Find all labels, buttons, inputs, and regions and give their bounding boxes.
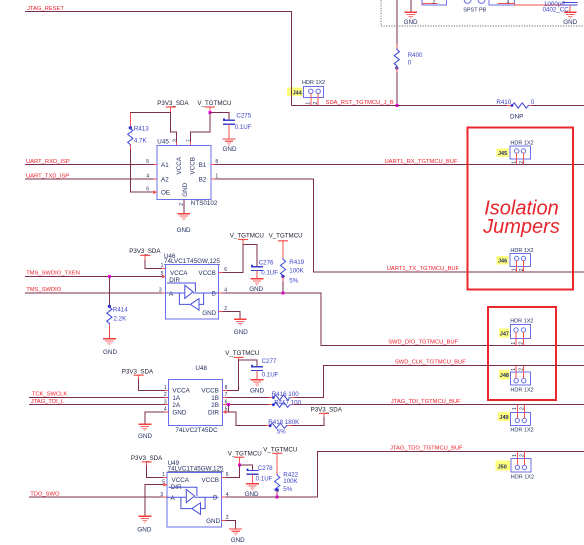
junction xyxy=(108,275,111,278)
svg-text:5%: 5% xyxy=(283,486,292,493)
resistor R400 xyxy=(396,44,398,49)
svg-text:V_TGTMCU: V_TGTMCU xyxy=(225,350,259,357)
wire SWD_CLK_TGTMCU_BUF xyxy=(295,366,584,398)
svg-text:JTAG_TDI_TGTMCU_BUF: JTAG_TDI_TGTMCU_BUF xyxy=(391,399,461,405)
svg-text:GND: GND xyxy=(172,409,186,416)
resistor R410 xyxy=(507,105,511,107)
switch contacts xyxy=(464,0,471,3)
svg-text:V_TGTMCU: V_TGTMCU xyxy=(197,100,231,107)
wire JTAG_TDI_L xyxy=(29,404,165,406)
wire pushbutton pin2 to R400 xyxy=(396,0,398,44)
connector J47 xyxy=(499,328,509,337)
svg-text:C276: C276 xyxy=(259,259,274,266)
connector J44 xyxy=(287,88,303,96)
svg-text:B2: B2 xyxy=(199,177,207,184)
svg-text:5%: 5% xyxy=(289,278,298,285)
svg-text:2: 2 xyxy=(164,392,167,398)
pin 2 stub xyxy=(219,310,223,312)
pin stubs xyxy=(223,389,227,391)
resistor R419 xyxy=(282,241,284,259)
svg-text:TMS_SWDIO_TXEN: TMS_SWDIO_TXEN xyxy=(26,271,80,277)
svg-text:A: A xyxy=(169,291,174,298)
svg-text:4.7K: 4.7K xyxy=(134,137,148,144)
svg-text:R416 100: R416 100 xyxy=(272,391,299,398)
svg-text:U48: U48 xyxy=(195,365,207,372)
svg-text:0.1UF: 0.1UF xyxy=(261,270,278,277)
svg-text:J44: J44 xyxy=(293,90,303,96)
svg-text:B: B xyxy=(213,495,217,502)
wire TMS_SWDIO xyxy=(25,292,162,294)
svg-text:B: B xyxy=(212,290,216,297)
wire TCK_SWCLK xyxy=(29,397,165,399)
svg-text:J47: J47 xyxy=(500,331,509,337)
connector J48 xyxy=(499,370,509,379)
svg-text:2: 2 xyxy=(313,102,319,105)
ground xyxy=(564,12,577,19)
svg-text:GND: GND xyxy=(103,349,117,356)
buffer triangles U49 xyxy=(166,487,219,514)
wire UART_RXD_ISP xyxy=(25,164,153,166)
DIR arrow xyxy=(162,275,166,279)
svg-text:UART_TXD_ISP: UART_TXD_ISP xyxy=(26,173,69,179)
switch S pin 2 box xyxy=(422,0,447,5)
svg-text:1: 1 xyxy=(161,263,164,269)
svg-text:100K: 100K xyxy=(289,268,304,275)
svg-text:1: 1 xyxy=(164,385,167,391)
svg-text:C278: C278 xyxy=(258,465,273,472)
svg-text:SPST PB: SPST PB xyxy=(463,8,486,14)
svg-text:R414: R414 xyxy=(113,307,128,314)
svg-text:VCCA: VCCA xyxy=(170,270,188,277)
ground xyxy=(177,214,190,221)
svg-text:2: 2 xyxy=(519,161,525,164)
ground xyxy=(251,380,264,387)
svg-text:0: 0 xyxy=(531,99,535,106)
svg-text:R417 100: R417 100 xyxy=(274,400,301,407)
svg-text:GND: GND xyxy=(182,182,189,196)
svg-text:DNP: DNP xyxy=(510,114,523,121)
wire DIR to gnd xyxy=(145,485,163,516)
svg-text:HDR 1X2: HDR 1X2 xyxy=(302,80,325,86)
svg-text:JTAG_RESET: JTAG_RESET xyxy=(27,6,64,12)
ground xyxy=(223,139,236,146)
svg-text:P3V3_SDA: P3V3_SDA xyxy=(122,368,154,375)
svg-text:GND: GND xyxy=(138,433,152,440)
svg-text:A1: A1 xyxy=(161,162,169,169)
svg-text:2B: 2B xyxy=(211,402,219,409)
connector J49 xyxy=(498,412,510,421)
svg-text:2: 2 xyxy=(520,454,526,457)
wire gnd drop xyxy=(410,0,412,12)
ground xyxy=(139,516,152,523)
svg-text:GND: GND xyxy=(223,146,237,153)
svg-text:JTAG_TDI_L: JTAG_TDI_L xyxy=(31,399,65,405)
svg-text:1: 1 xyxy=(512,161,518,164)
red isolation box 1 xyxy=(468,128,574,290)
svg-text:JTAG_TDO_TGTMCU_BUF: JTAG_TDO_TGTMCU_BUF xyxy=(390,446,463,452)
pin stubs left xyxy=(153,164,157,166)
svg-text:VCCB: VCCB xyxy=(202,477,220,484)
svg-text:HDR 1X2: HDR 1X2 xyxy=(510,387,533,393)
svg-text:1: 1 xyxy=(306,102,312,105)
wire SDA_RST_TGTMCU_J_B xyxy=(291,105,507,107)
svg-text:TCK_SWCLK: TCK_SWCLK xyxy=(32,392,68,398)
svg-text:P3V3_SDA: P3V3_SDA xyxy=(311,407,343,414)
svg-text:P3V3_SDA: P3V3_SDA xyxy=(131,455,163,462)
svg-text:OE: OE xyxy=(161,190,170,197)
wire JTAG_RESET xyxy=(25,12,291,106)
svg-text:V_TGTMCU: V_TGTMCU xyxy=(230,232,264,239)
wire TDO_SWO xyxy=(29,496,163,498)
svg-text:100K: 100K xyxy=(283,478,298,485)
svg-text:1A: 1A xyxy=(172,395,181,402)
wire R413 to OE xyxy=(130,150,152,193)
svg-text:VCCA: VCCA xyxy=(172,388,190,395)
pin stubs right xyxy=(211,164,215,166)
svg-text:A: A xyxy=(171,495,176,502)
junction xyxy=(238,464,241,467)
svg-text:VCCA: VCCA xyxy=(172,477,190,484)
top dashed enclosure xyxy=(381,0,584,26)
svg-text:1: 1 xyxy=(511,368,517,371)
capacitor C275 xyxy=(223,118,235,124)
ground xyxy=(139,424,152,431)
svg-text:R419: R419 xyxy=(289,259,304,266)
svg-text:2A: 2A xyxy=(172,402,181,409)
resistor R422 xyxy=(276,453,278,474)
svg-text:C275: C275 xyxy=(236,113,251,120)
svg-text:P3V3_SDA: P3V3_SDA xyxy=(129,248,161,255)
svg-text:GND: GND xyxy=(250,387,264,394)
svg-text:R410: R410 xyxy=(496,99,511,106)
svg-text:GND: GND xyxy=(231,537,245,544)
wire to VCCA and R413 xyxy=(130,112,170,113)
svg-text:SWD_CLK_TGTMCU_BUF: SWD_CLK_TGTMCU_BUF xyxy=(395,360,466,366)
wire pin4 gnd xyxy=(145,412,169,424)
svg-text:J49: J49 xyxy=(499,415,508,421)
svg-text:1: 1 xyxy=(162,472,165,478)
capacitor C276 xyxy=(251,265,263,271)
svg-text:5: 5 xyxy=(146,159,149,165)
svg-text:2: 2 xyxy=(520,407,526,410)
svg-text:DIR: DIR xyxy=(208,409,219,416)
svg-text:UART_RXD_ISP: UART_RXD_ISP xyxy=(26,159,70,165)
svg-text:B1: B1 xyxy=(199,162,207,169)
svg-text:U45: U45 xyxy=(157,139,169,146)
svg-text:TDO_SWO: TDO_SWO xyxy=(30,491,60,497)
svg-text:V_TGTMCU: V_TGTMCU xyxy=(263,447,297,454)
connector J46 xyxy=(496,256,508,265)
svg-text:GND: GND xyxy=(563,19,577,26)
resistor R413 xyxy=(129,113,131,128)
pin 6 stub xyxy=(219,271,223,273)
svg-text:SDA_RST_TGTMCU_J_B: SDA_RST_TGTMCU_J_B xyxy=(326,100,394,106)
svg-text:UART1_RX_TGTMCU_BUF: UART1_RX_TGTMCU_BUF xyxy=(385,159,458,165)
svg-text:R413: R413 xyxy=(134,126,149,133)
svg-text:J45: J45 xyxy=(498,151,507,157)
svg-text:NTS0102: NTS0102 xyxy=(191,200,218,207)
svg-text:4: 4 xyxy=(146,174,149,180)
capacitor C278 xyxy=(247,469,259,475)
svg-text:HDR 1X2: HDR 1X2 xyxy=(510,318,533,324)
wire to C278 xyxy=(239,465,252,470)
svg-text:VCCB: VCCB xyxy=(201,388,219,395)
svg-text:TMS_SWDIO: TMS_SWDIO xyxy=(26,287,62,293)
svg-text:0.1UF: 0.1UF xyxy=(262,371,279,378)
svg-text:R418 180K: R418 180K xyxy=(268,419,300,426)
svg-text:C277: C277 xyxy=(262,358,277,365)
resistor R416 xyxy=(227,397,270,399)
ground xyxy=(229,529,242,536)
buffer triangles U46 xyxy=(166,283,219,310)
capacitor C277 xyxy=(251,365,263,371)
svg-text:1: 1 xyxy=(511,342,517,345)
svg-text:GND: GND xyxy=(202,310,216,317)
red isolation box 2 xyxy=(488,307,556,400)
svg-text:J50: J50 xyxy=(498,464,507,470)
svg-text:0.1UF: 0.1UF xyxy=(256,476,273,483)
capacitor 1000pF xyxy=(563,1,578,3)
ground xyxy=(246,484,259,491)
svg-text:6: 6 xyxy=(146,187,149,193)
svg-text:2: 2 xyxy=(519,268,525,271)
DIR arrow xyxy=(163,483,167,487)
svg-text:GND: GND xyxy=(206,518,220,525)
connector J50 xyxy=(495,461,510,471)
svg-text:74LVC1T45GW,125: 74LVC1T45GW,125 xyxy=(168,465,224,472)
svg-text:J48: J48 xyxy=(500,373,509,379)
junction DIR to 2B xyxy=(227,403,230,406)
svg-text:2.2K: 2.2K xyxy=(114,316,128,323)
svg-text:R400: R400 xyxy=(408,52,423,59)
svg-text:GND: GND xyxy=(137,526,151,533)
wire VCCB net xyxy=(223,245,244,273)
svg-text:GND: GND xyxy=(249,286,263,293)
wire B1 / UART1_RX_TGTMCU_BUF xyxy=(215,164,584,166)
ground xyxy=(404,12,417,19)
junction xyxy=(208,111,211,114)
svg-text:J46: J46 xyxy=(498,259,507,265)
junction xyxy=(395,104,398,107)
pin 4 stub xyxy=(219,292,223,294)
svg-text:2: 2 xyxy=(433,0,436,5)
wire switch to C xyxy=(514,4,563,5)
wire to C275 xyxy=(210,113,229,121)
wire TMS_SWDIO_TXEN xyxy=(25,276,162,278)
svg-text:1B: 1B xyxy=(211,395,219,402)
resistor R414 xyxy=(108,277,110,306)
ground xyxy=(103,339,116,346)
wire U46 B to SWD_DIO_TGTMCU_BUF xyxy=(223,293,584,345)
svg-text:3: 3 xyxy=(173,139,179,142)
junction xyxy=(282,292,285,295)
svg-text:4: 4 xyxy=(507,0,510,5)
svg-text:3: 3 xyxy=(159,288,162,294)
resistor R418 pullup DIR xyxy=(227,412,266,426)
wire to VCCB xyxy=(191,113,210,142)
svg-text:VCCB: VCCB xyxy=(189,157,196,175)
svg-text:0.1UF: 0.1UF xyxy=(235,124,252,131)
svg-text:1: 1 xyxy=(512,268,518,271)
wire U49 B to JTAG_TDO xyxy=(222,496,226,498)
svg-text:0: 0 xyxy=(408,59,412,66)
svg-text:GND: GND xyxy=(234,329,248,336)
svg-text:3: 3 xyxy=(164,399,167,405)
svg-text:V_TGTMCU: V_TGTMCU xyxy=(228,450,262,457)
gnd pin 2 xyxy=(183,199,185,213)
wire UART_TXD_ISP xyxy=(25,178,153,180)
svg-text:74LVC2T45DC: 74LVC2T45DC xyxy=(175,427,218,434)
connector J45 xyxy=(496,148,508,157)
switch S pin 4 box xyxy=(489,0,515,5)
resistor R417 / JTAG_TDI xyxy=(227,404,270,406)
junction xyxy=(276,496,279,499)
svg-text:SWD_DIO_TGTMCU_BUF: SWD_DIO_TGTMCU_BUF xyxy=(388,340,458,346)
svg-text:7: 7 xyxy=(187,139,193,142)
svg-text:1: 1 xyxy=(512,407,518,410)
wire pin2 to gnd xyxy=(223,311,241,319)
svg-text:P3V3_SDA: P3V3_SDA xyxy=(157,100,189,107)
ground xyxy=(251,279,264,286)
svg-text:UART1_TX_TGTMCU_BUF: UART1_TX_TGTMCU_BUF xyxy=(387,266,460,272)
ground xyxy=(234,319,247,326)
svg-text:Jumpers: Jumpers xyxy=(482,216,560,238)
svg-text:HDR 1X2: HDR 1X2 xyxy=(510,427,533,433)
svg-text:GND: GND xyxy=(404,19,418,26)
svg-text:A2: A2 xyxy=(161,177,169,184)
wire VCCB xyxy=(226,465,240,478)
wire U49 pin2 gnd xyxy=(222,519,226,521)
DIR arrow xyxy=(223,410,227,414)
svg-text:V_TGTMCU: V_TGTMCU xyxy=(269,232,303,239)
svg-text:VCCB: VCCB xyxy=(198,270,216,277)
svg-text:GND: GND xyxy=(177,227,191,234)
wire B2 to UART1_TX_TGTMCU_BUF xyxy=(215,179,584,272)
svg-text:VCCA: VCCA xyxy=(176,156,183,174)
svg-text:2: 2 xyxy=(518,342,524,345)
svg-text:1: 1 xyxy=(512,454,518,457)
svg-text:HDR 1X2: HDR 1X2 xyxy=(511,474,534,480)
svg-text:2: 2 xyxy=(519,368,525,371)
svg-text:5%: 5% xyxy=(277,428,286,435)
